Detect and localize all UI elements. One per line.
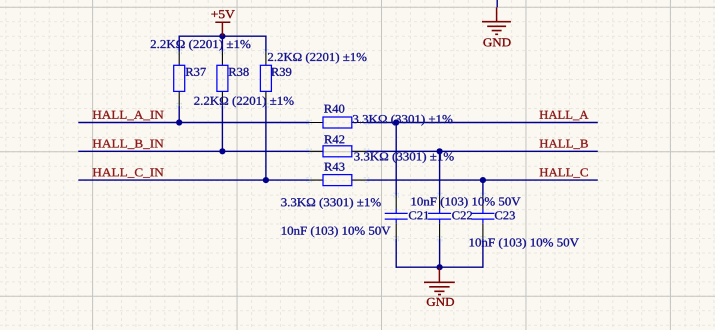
ground GND bottom [424,267,455,306]
pin hotspot markers [177,50,485,242]
capacitor C22 [428,196,472,239]
wire HALL_B row [366,150,598,152]
label GND top [483,38,510,46]
net label HALL_C_IN [93,168,164,177]
wire row C down to C23 [482,180,484,195]
wire R37 bottom to row A [178,106,180,123]
net label HALL_A_IN [93,111,164,120]
wire +5V top bus [179,35,266,37]
designator C22 [452,211,472,219]
wire gnd bus [396,266,483,268]
value R42 3.3K [354,152,453,163]
wire HALL_C_IN row [78,179,309,181]
designator R43 [324,163,344,171]
wire R38 bottom to row B [221,106,223,152]
net label HALL_A [540,111,589,120]
net label HALL_C [540,168,588,177]
wire C22 down to gnd bus [439,239,441,267]
junction C23 / row C [480,177,486,183]
designator R37 [186,68,206,76]
wire HALL_A_IN row [78,122,309,124]
value R39 2.2K [268,53,367,64]
resistor R43 [309,163,366,186]
wire drop to R37 top pin [178,36,180,52]
capacitor C23 [471,196,515,239]
designator C23 [495,211,515,219]
junction C22 / row B [437,148,443,154]
resistor R37 [174,52,206,106]
wire drop to R38 top pin [221,36,223,52]
label GND bottom [427,298,454,306]
resistor R38 [217,52,249,106]
label +5V [211,10,234,18]
wire HALL_A row [366,122,598,124]
wire HALL_B_IN row [78,150,309,152]
wire C23 down to gnd bus [482,239,484,268]
value C23 10nF [470,238,579,249]
wire row B down to C22 [439,151,441,195]
value R40 3.3K [353,115,452,126]
value R37 2.2K [151,40,251,51]
wire HALL_C row [366,179,598,181]
net label HALL_B_IN [93,140,164,149]
value C21 10nF [282,226,391,237]
junction R38 / row B [219,148,225,154]
wire drop to R39 top pin [265,36,267,52]
junction R37 / row A [176,119,182,125]
resistor R40 [309,105,366,128]
wire row A down to C21 [395,123,397,196]
value R38 2.2K [194,96,293,107]
wire stub to top GND [496,0,498,7]
designator R40 [324,105,344,113]
designator R42 [324,135,344,143]
resistor R42 [309,135,366,156]
designator R38 [229,68,249,76]
value C22 10nF [412,197,521,208]
junction R39 / row C [263,177,269,183]
designator R39 [271,68,291,76]
junction gnd bus / GND [437,264,443,270]
power port +5V [211,10,234,36]
wire R39 bottom to row C [265,106,267,180]
net label HALL_B [540,140,588,149]
junction C21 / row A [393,119,399,125]
resistor R39 [260,52,291,106]
value R43 3.3K [281,198,380,209]
wire C21 down to gnd bus [395,239,397,268]
ground GND top [482,7,511,46]
capacitor C21 [385,196,429,239]
designator C21 [409,211,429,219]
junction +5V bus / R38 [219,33,225,39]
